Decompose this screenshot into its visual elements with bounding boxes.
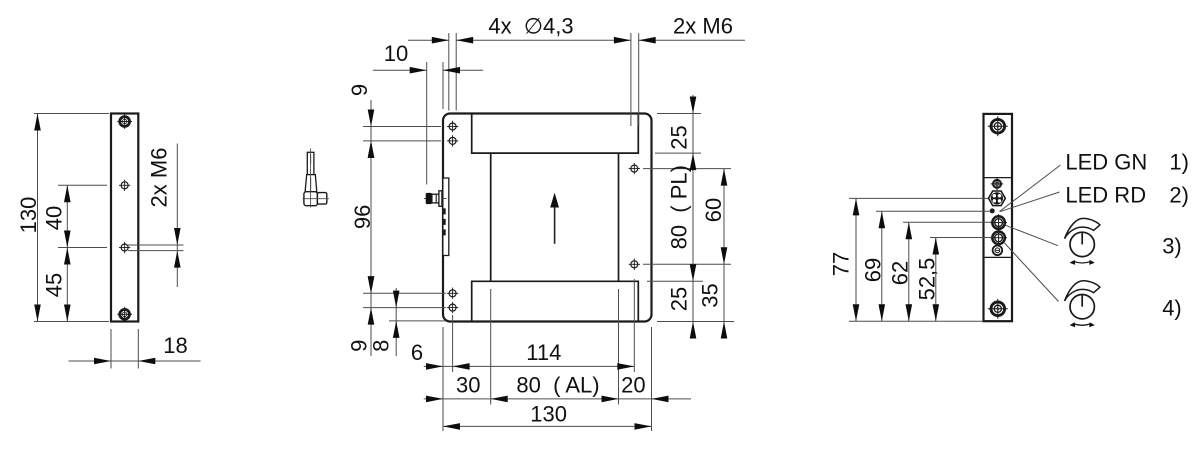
extension line body bottom edge left [389,320,445,322]
dimension 30 bottom [424,398,691,400]
leader LED GN [1000,165,1061,211]
dimension 52,5 right view [935,238,937,322]
extension lines top-left holes [363,126,441,128]
svg-text:25: 25 [667,125,692,149]
left view mounting plate outline [111,114,138,322]
leader LED RD [1000,192,1060,212]
svg-text:30: 30 [456,373,480,398]
left view M6 hole lower [119,242,130,253]
svg-text:35: 35 [698,283,723,307]
svg-text:2x M6: 2x M6 [673,14,733,39]
extension lines right view features [849,197,988,199]
svg-text:69: 69 [861,258,886,282]
svg-text:130: 130 [16,197,41,234]
svg-text:9: 9 [347,84,372,96]
svg-text:2x M6: 2x M6 [147,148,172,208]
extension lines bottom middle view [442,327,444,431]
connector side view [424,191,447,207]
svg-text:4x ∅4,3: 4x ∅4,3 [488,14,573,39]
dimension 60 right [723,169,725,337]
svg-text:18: 18 [163,333,187,358]
dimension 6 bottom [424,365,635,367]
svg-text:20: 20 [621,373,645,398]
svg-text:45: 45 [42,273,67,297]
potentiometer 1 [990,214,1007,231]
svg-text:LED GN: LED GN [1065,149,1147,174]
extension lines bottom-left holes [363,292,446,294]
svg-text:4): 4) [1162,295,1182,320]
dimension 130 left view [37,114,39,322]
callout 2x M6 left view [128,244,184,246]
dimension 10 connector offset [426,62,428,185]
leader knob 3 [1006,225,1058,245]
potentiometer 2 [990,229,1007,246]
svg-text:6: 6 [411,340,423,365]
dimension 8 bottom-left [395,288,397,356]
svg-text:60: 60 [701,198,726,222]
svg-text:77: 77 [829,252,854,276]
hole M6 right lower [629,259,640,270]
dimension 25 top right [692,95,694,337]
right view panel separation lines [985,177,1011,179]
dimension 45 left view [66,248,68,322]
extension lines hole M6 top [630,33,632,126]
left view M6 hole upper [119,180,130,191]
extension line body bottom right [657,321,734,323]
rotary knob icon 3 [1065,218,1100,265]
top flange band middle view [472,115,639,154]
dimension 77 right view [855,198,857,321]
svg-text:114: 114 [526,340,561,365]
center section left edge [490,153,492,281]
extension lines hole dia 4.3 [448,33,450,111]
hole 4.3 bottom-left lower [447,302,458,313]
dimension 2x M6 top [639,39,745,41]
dimension 9 bottom-left [370,273,372,356]
right view small screw above connector [991,178,1004,191]
M12 connector face [989,191,1006,206]
dimension 130 bottom [443,425,652,427]
svg-text:1): 1) [1169,149,1189,174]
svg-text:40: 40 [42,206,67,230]
extension lines right side PL [657,113,701,115]
right view bottom screw [988,299,1008,319]
left view top screw [117,114,132,129]
dimension 18 left view [110,329,112,369]
svg-text:80 ( PL): 80 ( PL) [667,165,692,249]
svg-text:96: 96 [350,205,375,229]
dimension 96 middle view [370,141,372,293]
dimension 25 bottom right [690,322,697,339]
svg-text:3): 3) [1162,233,1182,258]
svg-text:2): 2) [1169,182,1189,207]
right view top screw [988,116,1008,136]
dimension 4x dia 4,3 [408,39,449,41]
rotary knob icon 4 [1065,281,1100,328]
hidden edge dashes on strip [443,208,446,239]
dimension 40 left view [66,185,68,247]
hole M6 right upper [629,163,640,174]
left view bottom screw [117,307,132,322]
svg-text:80 ( AL): 80 ( AL) [516,373,599,398]
leader knob 4 [1005,243,1059,302]
main body outline middle view [443,114,652,322]
bottom flange band middle view [472,281,639,320]
svg-text:130: 130 [530,402,567,427]
dimension 114 bottom [453,363,470,370]
small screw below potentiometers [993,246,1003,256]
orientation arrow middle view [550,193,559,244]
svg-text:8: 8 [369,340,394,352]
side profile strip of mounting plate [444,178,449,256]
dimension 9 top-left [370,100,372,161]
dimension 69 right view [881,211,883,321]
left view extension lines for height dims [34,113,109,115]
hole 4.3 top-left lower [447,135,458,146]
dimension 62 right view [908,222,910,321]
dimension 80 PL right [690,264,697,281]
LED indicator dot [990,208,995,213]
dimension 80 AL bottom [491,396,508,403]
svg-text:10: 10 [384,41,408,66]
extension lines right side AL holes [643,168,731,170]
hole 4.3 bottom-left upper [447,288,458,299]
right view plate outline [984,114,1013,321]
svg-text:52,5: 52,5 [915,258,940,301]
svg-text:25: 25 [667,287,692,311]
svg-text:62: 62 [888,261,913,285]
right-angle connector plug symbol [303,149,330,208]
dimension 35 right [721,322,728,339]
svg-text:LED RD: LED RD [1065,182,1146,207]
center section right edge [618,153,620,281]
dimension 20 bottom [652,396,669,403]
hole 4.3 top-left upper [447,121,458,132]
